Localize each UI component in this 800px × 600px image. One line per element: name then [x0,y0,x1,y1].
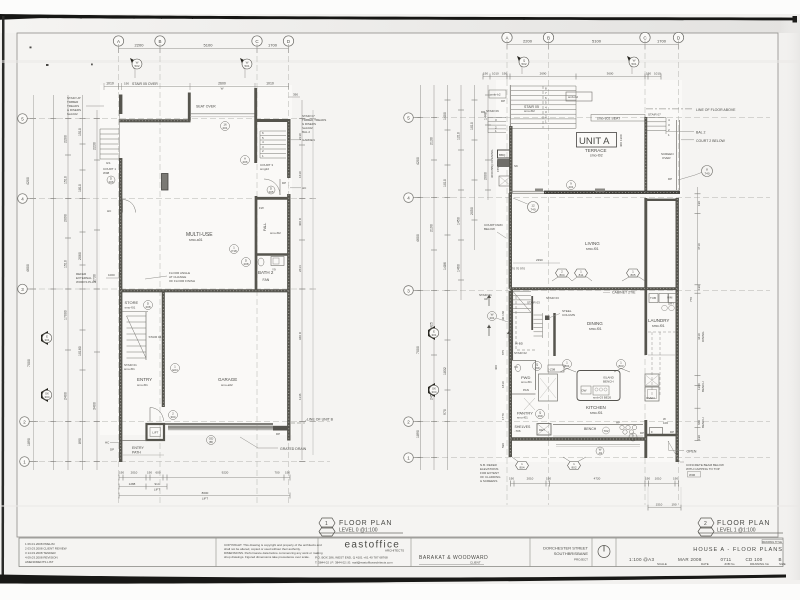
store marker circle [144,301,153,310]
plan 1 title marker hexagon [319,518,335,536]
svg-text:(B): (B) [209,440,213,444]
svg-text:OPEN: OPEN [687,450,697,454]
marker circle below bench [596,447,604,455]
grid column C dashed [644,44,646,505]
laundry lower dashes [648,331,676,333]
stair03 right wall [553,313,556,356]
svg-text:HP: HP [616,421,620,425]
grid bubble C [252,36,262,46]
svg-text:190: 190 [285,471,290,475]
svg-text:1832: 1832 [443,367,447,375]
marker circle D 199 [629,433,637,441]
bench line [553,424,643,426]
svg-text:DRAWING No: DRAWING No [750,562,769,566]
svg-text:BAL 2: BAL 2 [696,131,705,135]
svg-text:1510: 1510 [64,176,68,184]
grid row 4 dashed [415,197,770,199]
svg-text:fwd-b02: fwd-b02 [67,112,78,116]
svg-text:1510: 1510 [656,503,663,507]
right margin dim chain [312,110,314,455]
grid bubble D [673,32,683,42]
left dim chain line 3 [82,95,84,470]
svg-text:A: A [117,39,120,44]
svg-text:801: 801 [564,364,569,368]
svg-text:4710: 4710 [697,243,701,250]
svg-text:4200: 4200 [416,157,420,165]
svg-text:smo-f01: smo-f01 [517,416,528,420]
plan 1 title underline [319,532,403,534]
left margin section diamond E302 [41,388,52,402]
rotated dims left chains [416,112,488,438]
svg-text:UNIT A: UNIT A [579,136,610,147]
svg-text:LEVEL 1 @1:100: LEVEL 1 @1:100 [717,528,756,534]
svg-text:COLUMN: COLUMN [562,313,575,317]
left dim chain line 4 [96,110,98,470]
right court lower stub wall [645,199,679,201]
svg-text:2190: 2190 [430,224,434,232]
svg-text:970 70 970: 970 70 970 [510,267,525,271]
svg-text:3400: 3400 [93,402,97,410]
svg-text:201: 201 [568,185,573,189]
island bench [577,371,620,401]
svg-text:PROJECT: PROJECT [574,558,588,562]
grid bubble 4 [18,194,28,204]
svg-text:2690: 2690 [540,72,547,76]
grid bubble 5 [18,114,28,124]
svg-text:304: 304 [170,415,175,419]
svg-text:smg22: smg22 [260,167,269,171]
section marker W501 [627,56,639,74]
svg-text:PATH: PATH [132,451,141,455]
svg-text:ENTRY: ENTRY [137,377,152,382]
hexagon marker 1 802 bottom [568,462,581,470]
svg-text:smo-a02: smo-a02 [221,383,233,387]
shelves boxes [537,424,551,436]
svg-text:SCALE: SCALE [657,562,667,566]
svg-text:190: 190 [502,72,507,76]
svg-text:1460: 1460 [457,264,461,272]
svg-text:875: 875 [501,350,505,355]
svg-text:ENTRY: ENTRY [132,446,144,450]
svg-text:BENCH: BENCH [701,417,705,428]
line of unit B [291,422,305,424]
svg-text:LINE OF FLOOR ABOVE: LINE OF FLOOR ABOVE [696,108,736,112]
svg-text:208: 208 [243,262,248,266]
bottom dim row 3 [119,495,290,497]
svg-text:JOB No: JOB No [724,562,735,566]
garage right corner wall [273,426,288,431]
plan 2 title marker hexagon [698,518,714,536]
grid row 4 dashed [30,198,312,200]
svg-text:smb-b2: smb-b2 [491,93,501,97]
svg-text:7000: 7000 [27,359,31,367]
svg-text:770: 770 [689,297,693,302]
living right wall [644,198,647,290]
stair07 numbers [262,131,264,158]
stair up note [67,96,81,116]
svg-text:190: 190 [673,477,678,481]
svg-text:MAR 2008: MAR 2008 [678,557,702,562]
grid row 5 dashed [415,117,770,119]
svg-text:DP: DP [282,181,286,185]
svg-text:BENCH: BENCH [584,427,597,431]
svg-text:1146: 1146 [298,393,302,400]
svg-text:AMENDMENTS LIST: AMENDMENTS LIST [25,560,54,564]
svg-text:LINE OF UNIT B: LINE OF UNIT B [307,418,334,422]
second dim row [104,86,289,88]
grid bubble 2 [404,417,414,427]
refer external works note [76,272,96,284]
svg-text:-706: -706 [515,429,521,433]
grid bubble D [283,36,293,46]
sink circles [620,425,624,429]
svg-text:190: 190 [147,471,152,475]
marker circle 804 [171,364,180,373]
svg-text:206: 206 [242,160,247,164]
grid column D dashed [288,47,290,505]
svg-text:TERRACE: TERRACE [585,148,607,153]
svg-text:smo-f02: smo-f02 [270,231,281,235]
grid bubble 5 [404,113,414,123]
svg-text:FALL: FALL [263,223,267,231]
stair07 upper treads [645,118,666,135]
grid column B dashed [159,47,161,505]
grid column D dashed [678,44,680,505]
svg-text:201: 201 [222,126,227,130]
drawing title label box [762,540,783,544]
svg-text:GRATED DRAIN: GRATED DRAIN [280,447,307,451]
seat over row [591,115,645,122]
entry door arc [150,408,164,422]
grid bubble C [640,32,650,42]
svg-text:199: 199 [537,414,542,418]
client underline [419,563,484,565]
svg-text:1486: 1486 [443,262,447,270]
svg-text:-01: -01 [598,451,603,455]
svg-text:2200: 2200 [523,39,533,44]
pwd toilet [515,364,520,371]
hexagon marker 2 804 [556,269,569,277]
kitchen tall bench [539,374,558,401]
small rotated dims near stair (left inner) [494,310,505,448]
svg-text:190: 190 [124,82,129,86]
svg-text:WM: WM [667,296,673,300]
grid row 1 dashed [30,461,330,463]
svg-text:740: 740 [530,208,535,212]
svg-text:190: 190 [483,72,488,76]
bath wc symbol [258,258,264,266]
grid row 2 dashed [30,421,330,423]
faint scan streak 1 [0,60,800,63]
svg-text:301: 301 [431,333,436,337]
svg-text:smo-a01: smo-a01 [189,238,203,242]
screen thin double line right [676,120,678,190]
title block divider 3 [410,538,412,567]
svg-text:smo-f01: smo-f01 [137,383,148,387]
bottom paper edge black band [0,575,786,584]
svg-text:4200: 4200 [26,177,30,185]
svg-text:P18: P18 [231,249,237,253]
svg-text:190: 190 [546,477,551,481]
garage front wall [165,423,274,425]
svg-text:-Z08: -Z08 [549,368,556,372]
svg-text:205: 205 [268,190,273,194]
steel column square [545,316,550,321]
svg-text:502: 502 [134,64,139,68]
svg-text:DP: DP [501,99,505,103]
right stub wall [645,434,679,437]
svg-text:5100: 5100 [204,43,214,48]
column rect [162,174,169,191]
BAL 2 note [666,131,694,133]
svg-text:190: 190 [697,201,701,206]
seat over thin line [190,113,255,115]
fridge boxes right [650,428,663,436]
svg-text:smb-03 BE26: smb-03 BE26 [593,396,612,400]
svg-text:LEVEL 0 @1:100: LEVEL 0 @1:100 [339,528,378,534]
svg-text:DP: DP [110,448,114,452]
north circle [598,546,610,558]
marker circle A 205 [241,156,250,165]
section marker W502 left [130,58,142,78]
north tick [603,546,605,552]
svg-text:4 09.03.2008 REVISION: 4 09.03.2008 REVISION [25,556,58,560]
svg-text:BBQ: BBQ [499,153,506,157]
hexagon marker 1 811 [575,269,588,277]
svg-text:smo-t02: smo-t02 [590,154,603,158]
svg-text:1700: 1700 [268,43,278,48]
svg-text:smo-f01: smo-f01 [590,411,603,415]
stair03 center wall [531,296,533,330]
svg-text:1010: 1010 [470,122,474,130]
island stove [581,386,591,394]
main cross wall (terrace/living) [544,191,680,194]
left margin section diamond SK304 [428,383,439,397]
section marker W501 right [240,58,252,78]
svg-text:1010: 1010 [654,72,661,76]
dim text 390 right [289,96,301,98]
svg-text:HOUSE A - FLOOR PLANS: HOUSE A - FLOOR PLANS [693,547,783,553]
svg-text:2060: 2060 [78,252,82,260]
grid bubble 2 [20,417,30,427]
svg-text:1510: 1510 [64,260,68,268]
OPEN note [669,441,684,451]
svg-text:1:100 @A3: 1:100 @A3 [629,557,654,562]
right outer wall upper [287,119,290,178]
svg-text:1510: 1510 [78,128,82,136]
svg-text:190: 190 [697,285,701,290]
svg-text:400 1300: 400 1300 [619,134,623,147]
mid wall row3 [120,289,291,292]
svg-text:804: 804 [519,466,524,470]
svg-text:WITH CAPPING TO TOP: WITH CAPPING TO TOP [686,467,720,471]
svg-text:1010: 1010 [443,179,447,187]
svg-text:DRAWING TITLE: DRAWING TITLE [762,540,782,544]
PWD room walls [509,291,512,457]
grid bubble A [502,32,512,42]
copyright text block [224,543,323,559]
title block divider 6 [615,538,617,567]
grid bubble B [155,36,165,46]
stair05 tread numbers [545,87,547,124]
right margin notes [302,114,326,190]
svg-text:190: 190 [509,477,514,481]
bottom dim row 2 [119,486,167,488]
svg-text:ARCHITECTS: ARCHITECTS [385,549,404,553]
marker circle W 201 [221,122,230,131]
svg-text:DP: DP [640,431,644,435]
svg-text:700: 700 [274,471,279,475]
svg-text:7000: 7000 [416,346,420,354]
svg-text:17000: 17000 [64,310,68,320]
svg-text:STORE: STORE [125,300,139,305]
svg-text:STAIR 03: STAIR 03 [546,296,559,300]
svg-text:1 06.01.2008 PRELIM: 1 06.01.2008 PRELIM [25,542,55,546]
svg-text:9220: 9220 [222,471,229,475]
white strip below bottom band [0,584,800,600]
left margin section diamond E301 [41,331,52,345]
svg-text:190: 190 [697,435,701,440]
svg-text:LIFT: LIFT [154,488,160,492]
fall shaft bottom wall [255,253,288,256]
svg-text:P.O. BOX 286, WEST END, Q 4101: P.O. BOX 286, WEST END, Q 4101 +61 40 78… [315,556,388,560]
svg-text:190: 190 [671,503,676,507]
title block outer box [19,538,783,567]
svg-text:1010: 1010 [492,72,499,76]
svg-text:LIFT: LIFT [202,497,208,501]
grid bubble 4 [404,193,414,203]
svg-text:890: 890 [78,438,82,444]
BBQ boxes [498,150,512,158]
top dimension line A-D [119,48,289,50]
svg-text:smo-f01: smo-f01 [652,324,665,328]
svg-text:201: 201 [489,316,494,320]
svg-text:2390: 2390 [536,258,543,262]
svg-text:& SCREENS: & SCREENS [480,479,497,483]
grid bubble 3 [18,284,28,294]
svg-text:301: 301 [44,338,49,342]
floor angle note [169,271,195,283]
left outer wall main [119,158,122,462]
scan speck 2 [30,47,32,49]
svg-text:4720: 4720 [594,477,601,481]
svg-text:3 14.03.2008 TENDER: 3 14.03.2008 TENDER [25,551,56,555]
marker circles left of stair [488,312,497,321]
title block divider 2 [317,538,319,567]
svg-text:SOUTHBRISBANE: SOUTHBRISBANE [554,551,589,556]
svg-text:190: 190 [645,477,650,481]
svg-text:8600: 8600 [202,491,209,495]
svg-text:DORCHESTER STREET: DORCHESTER STREET [543,546,588,551]
right upper wall C [644,117,647,193]
svg-text:1450: 1450 [457,217,461,225]
OVEN stack [645,374,659,386]
svg-text:DATE: DATE [701,562,709,566]
svg-text:1610: 1610 [298,171,302,178]
svg-text:smo-f01: smo-f01 [521,380,532,384]
svg-text:TUB: TUB [650,296,656,300]
svg-text:1810: 1810 [501,381,505,388]
bottom dim row 1 [119,477,290,479]
title block divider 1 [215,538,217,567]
svg-text:LIFT: LIFT [152,431,158,435]
svg-text:501: 501 [631,62,636,66]
svg-text:400: 400 [494,365,498,370]
svg-text:STAIR 02: STAIR 02 [514,351,527,355]
grid row 5 dashed [30,118,312,120]
svg-text:5100: 5100 [592,39,602,44]
left outer wall upper stub [119,95,122,115]
svg-text:2000: 2000 [484,172,488,180]
svg-text:1400: 1400 [443,112,447,120]
svg-text:2400: 2400 [64,392,68,400]
svg-text:DRY: DRY [668,302,674,306]
grid column B dashed [548,44,550,505]
grid column A dashed [506,44,508,505]
svg-text:KITCHEN: KITCHEN [586,405,606,410]
eastoffice address [315,556,393,565]
svg-text:BELOW: BELOW [484,227,495,231]
svg-text:smo-f01: smo-f01 [589,327,602,331]
LIFT box [147,424,165,440]
svg-text:2200: 2200 [64,135,68,143]
svg-text:WORKS PLAN: WORKS PLAN [76,280,96,284]
svg-text:SEAT OVER: SEAT OVER [196,105,216,109]
marker circle Q 199 [533,362,542,371]
svg-text:B: B [547,36,550,41]
marker circle 12 740 [528,202,539,213]
svg-text:600: 600 [155,471,160,475]
marker circle 9 201 mid [567,181,576,190]
left dim chain line 0 [33,95,35,470]
svg-text:LAUNDRY: LAUNDRY [648,318,669,323]
svg-text:STAIR 07: STAIR 07 [648,113,661,117]
grid row 3 dashed [30,288,312,290]
COURT 2 BELOW note [681,139,694,141]
svg-text:FLOOR PLAN: FLOOR PLAN [717,520,770,527]
svg-text:W-BD: W-BD [515,342,524,346]
svg-text:W08: W08 [103,171,110,175]
svg-text:BATH 2: BATH 2 [258,270,274,275]
left dim chain line 2 [67,95,69,470]
gray wash under top scan line [0,20,800,33]
terrace edge sliding door [510,190,547,192]
svg-text:FLOOR PLAN: FLOOR PLAN [339,520,392,527]
svg-text:DET: DET [539,428,545,432]
stair05 block [511,86,576,128]
svg-text:2: 2 [704,521,707,527]
svg-text:PAN: PAN [523,388,529,392]
pwd/pantry divider [512,393,536,395]
svg-text:OVEN: OVEN [646,396,655,400]
grid column C dashed [256,47,258,505]
svg-text:smo-f02: smo-f02 [524,109,535,113]
svg-text:106: 106 [663,421,668,425]
svg-text:E04: E04 [172,368,178,372]
left dim chains [420,85,422,470]
marker circle Q 199b [536,410,545,419]
marker circle 1 803 [617,360,626,369]
scan speck 3 [91,64,93,66]
revision list [25,542,67,564]
svg-text:2 03.03.2008 CLIENT REVIEW: 2 03.03.2008 CLIENT REVIEW [25,547,67,551]
svg-text:STAIR 04: STAIR 04 [149,335,162,339]
left paper edge dark line [2,16,5,577]
court1 stair treads [100,129,119,159]
svg-text:1: 1 [325,521,328,527]
svg-text:2614: 2614 [298,265,302,272]
svg-text:W06: W06 [689,473,696,477]
